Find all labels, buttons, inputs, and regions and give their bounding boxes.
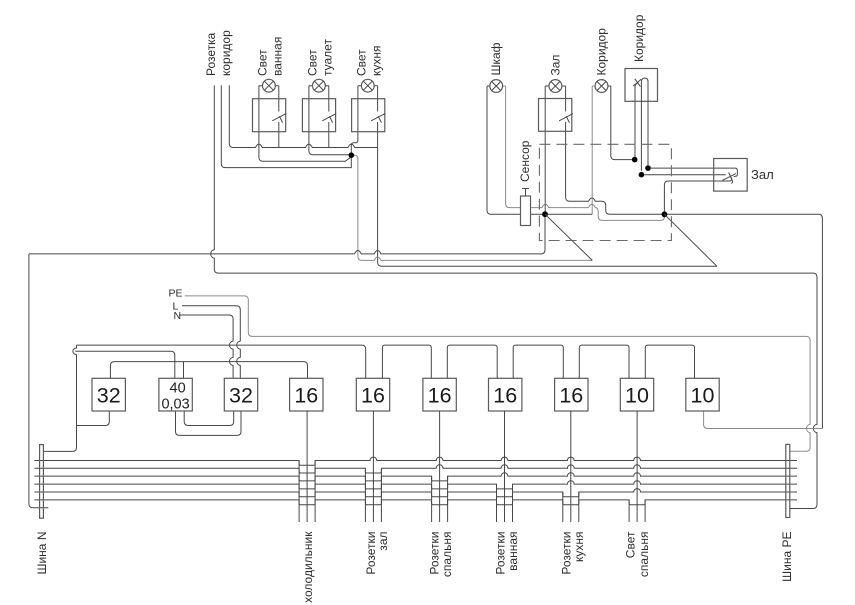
label: розетки кухня [560,532,587,575]
node: dot1 lighting N junction [542,211,548,217]
breaker 16A at x=505.2 [489,378,522,411]
wire: N/PE distribution loom line 1 [34,457,797,465]
svg-text:Шкаф: Шкаф [489,42,503,75]
switch box S1 [253,99,286,132]
svg-text:Розетка: Розетка [204,32,218,76]
wire: dot1 right branch to corridor lamp N [548,213,592,215]
wire: breaker top daisy-chain segment [447,345,497,378]
switch box wall-switch hall [714,159,748,192]
lamp hall [549,80,562,93]
wire: RCD/32#2 loop lower-left [176,411,242,435]
svg-text:16: 16 [559,384,583,408]
node: dot2 lighting L junction [662,211,668,217]
wire: light bedroom cable N conductor drop [628,500,630,522]
dashed boundary box (junction zone) [539,144,671,240]
wire: N/PE distribution loom line 4 [34,481,797,489]
wire: H3 header 32#1-top / RCD / 16#1-top [110,362,307,379]
wire: breaker top daisy-chain segment [579,345,629,378]
wire: hall lamp N wire down to dot1 [545,86,549,211]
svg-text:туалет: туалет [321,39,335,76]
wire: corridor outlet N conductor (line D to junction) [221,85,351,167]
switch box S2 [302,99,335,132]
wire: hall lamp switched wire to dot2 line [562,86,822,429]
label: Свет кухня (kitchen light) [355,45,384,76]
wire: light bedroom L drop from breaker to cable [636,411,638,522]
wire: left edge N riser to bus bar [29,254,48,508]
wire: sockets bedroom cable PE conductor drop [447,476,449,522]
svg-text:16: 16 [428,384,452,408]
wire: two-way switch lead 1 (to dotA) [635,83,638,157]
svg-text:холодильник: холодильник [301,531,315,603]
svg-text:ванная: ванная [271,37,285,76]
bus bar PE [786,444,790,517]
svg-text:Свет: Свет [256,49,270,76]
wire: L supply down to main breaker [182,306,240,379]
switch corridor blade [633,79,641,87]
lamp L2 toilet [313,79,326,92]
switch S-hall blade [559,114,573,121]
wire: lamp1 N wire (line C to junction) [259,86,350,162]
wire: fridge cable N conductor drop [298,461,300,523]
wire: fridge L drop from breaker to cable [306,411,308,522]
wire: corridor outlet / lights L conductor (line A with hops) [229,85,377,147]
node: dotB traveler junction [645,165,651,171]
breaker 10A at x=702.5 [686,378,719,411]
wire: breaker top daisy-chain segment [382,345,431,378]
svg-text:Шина N: Шина N [35,532,49,575]
wire: lamp3 N wire jog to junction [351,86,361,153]
svg-text:Сенсор: Сенсор [518,140,532,182]
wire: lamp3 switched wire down to line III [374,86,717,267]
svg-text:Коридор: Коридор [632,14,646,62]
label: свет спальня [624,531,652,577]
svg-text:10: 10 [625,384,649,408]
svg-text:Зал: Зал [751,167,774,182]
svg-text:зал: зал [376,532,390,551]
node: dotC traveler junction [639,172,645,178]
switch S2 blade [322,114,336,121]
switch box S-hall [539,99,572,132]
svg-text:40: 40 [170,381,186,397]
RCD 40A/0.03 at x=175.6 [159,378,192,411]
wire: breaker 10#2 output to hall lighting riser [704,411,823,429]
svg-text:N: N [174,310,182,322]
node: lighting neutral junction [349,152,355,158]
wire: N/PE distribution loom line 6 [34,500,797,505]
lamp L3 kitchen [361,79,374,92]
switch S3 blade [371,114,385,121]
wire: corridor lamp switched wire to two-way switch dotA [607,86,632,160]
svg-text:Коридор: Коридор [595,28,609,76]
svg-text:32: 32 [229,384,253,408]
svg-text:кухня: кухня [370,45,384,76]
wire: sockets bathroom cable PE conductor drop [512,484,514,522]
wire: N/PE distribution loom line 2 [34,465,797,473]
wire: sockets bedroom L drop from breaker to cable [439,411,441,522]
bus bar N [40,445,44,519]
breaker 16A at x=373 [356,378,389,411]
svg-text:PE: PE [169,287,183,299]
breaker 16A at x=306.3 [290,378,323,411]
breaker 32A at x=108.7 [92,378,125,411]
wire: cabinet lamp switched wire through sensor, to dot2 [502,86,664,220]
label: розетки ванная [494,532,521,575]
switch wall blade [723,173,737,184]
label: Свет туалет (toilet light) [306,39,335,76]
wire: cabinet lamp N wire to junction dot1 [487,86,542,214]
wire: sockets hall L drop from breaker to cable [372,411,374,522]
wire: sockets bathroom cable N conductor drop [496,484,498,522]
wire: H1 neutral header to breaker 16#2 top [77,345,366,378]
svg-text:0,03: 0,03 [161,397,189,413]
svg-text:спальня: спальня [440,532,454,578]
lamp cabinet [490,80,503,93]
svg-text:16: 16 [361,384,385,408]
label: Розетка коридор (corridor outlet) [204,30,233,76]
wire: H2 RCD top-left feeder [75,351,175,378]
wire: diagonal cable run dot1 to line II [545,214,592,260]
label: розетки зал [364,532,390,575]
wire: RCD/32#2 loop upper-right [184,411,234,426]
breaker 16A at x=571.3 [555,378,588,411]
svg-text:32: 32 [97,384,121,408]
wire: breaker top daisy-chain segment [645,345,694,378]
breaker 32A at x=241 [224,378,257,411]
svg-text:кухня: кухня [572,532,586,563]
svg-text:16: 16 [294,384,318,408]
switch S1 blade [272,114,286,121]
wire: sockets kitchen L drop from breaker to cable [570,411,572,522]
wire: N supply down to main breaker [179,315,233,378]
wire: lamp2 N wire (line B to junction) [309,86,349,155]
wire: corridor lamp N wire [592,86,596,214]
sensor top lead [522,189,529,197]
label: холодильник [301,531,315,603]
svg-text:спальня: спальня [637,532,651,578]
wire: sockets bathroom L drop from breaker to cable [504,411,506,522]
wire: breaker top daisy-chain segment [513,345,563,378]
wire: N/PE distribution loom line 5 [34,489,797,497]
wire: traveler 1 dotB to hall wall switch [651,168,738,176]
label: розетки спальня [428,532,455,578]
switch box S3 [352,99,385,132]
svg-text:16: 16 [493,384,517,408]
wire: RCD top-right stub [183,362,185,379]
wire: sockets kitchen cable N conductor drop [562,492,564,522]
switch box corridor (two-way) [625,69,658,102]
breaker 16A at x=439.6 [423,378,456,411]
svg-text:Свет: Свет [355,49,369,76]
wire: sockets hall cable N conductor drop [364,468,366,522]
svg-text:Свет: Свет [624,531,638,558]
wire: two-way switch lead 2+3 (loop, to dotC) [641,78,648,171]
svg-text:10: 10 [691,384,715,408]
wire: sockets bedroom cable N conductor drop [431,476,433,522]
svg-text:коридор: коридор [219,30,233,76]
wire: 32#1 bottom to N riser [77,411,110,426]
wire: sockets kitchen cable PE conductor drop [578,492,580,522]
lamp L1 bathroom [263,79,276,92]
wire: light bedroom cable PE conductor drop [644,500,646,522]
wire: lighting N collector branch to line II [351,155,592,260]
wire: lamp2 switched wire [325,86,329,148]
wire: sockets hall cable PE conductor drop [380,468,382,522]
wire: lamp1 switched wire [275,86,279,148]
wire: N/PE distribution loom line 3 [34,473,797,481]
wire: diagonal cable run dot2 to line III [664,214,717,266]
svg-text:Зал: Зал [549,55,563,76]
svg-text:Шина PE: Шина PE [780,532,794,582]
node: dotA lamp-switch junction [632,157,638,163]
wire: main lighting N line (y=254) [29,217,545,254]
wire: fridge cable PE conductor drop [314,461,316,523]
svg-text:ванная: ванная [506,532,520,571]
wire: L feed from dot2 up to hall wall switch [664,177,731,211]
wire: traveler 2 dotC to hall wall switch [644,174,726,176]
breaker 10A at x=637 [620,378,653,411]
svg-text:Свет: Свет [306,49,320,76]
wire: corridor outlet PE conductor (to PE bus bar) [211,85,817,508]
wire: H1 left riser to N bus bar [43,345,76,451]
wire: PE supply line to PE bus bar [185,296,810,451]
sensor body [521,196,531,226]
lamp corridor [595,80,608,93]
label: Свет ванная (bathroom light) [256,37,285,76]
